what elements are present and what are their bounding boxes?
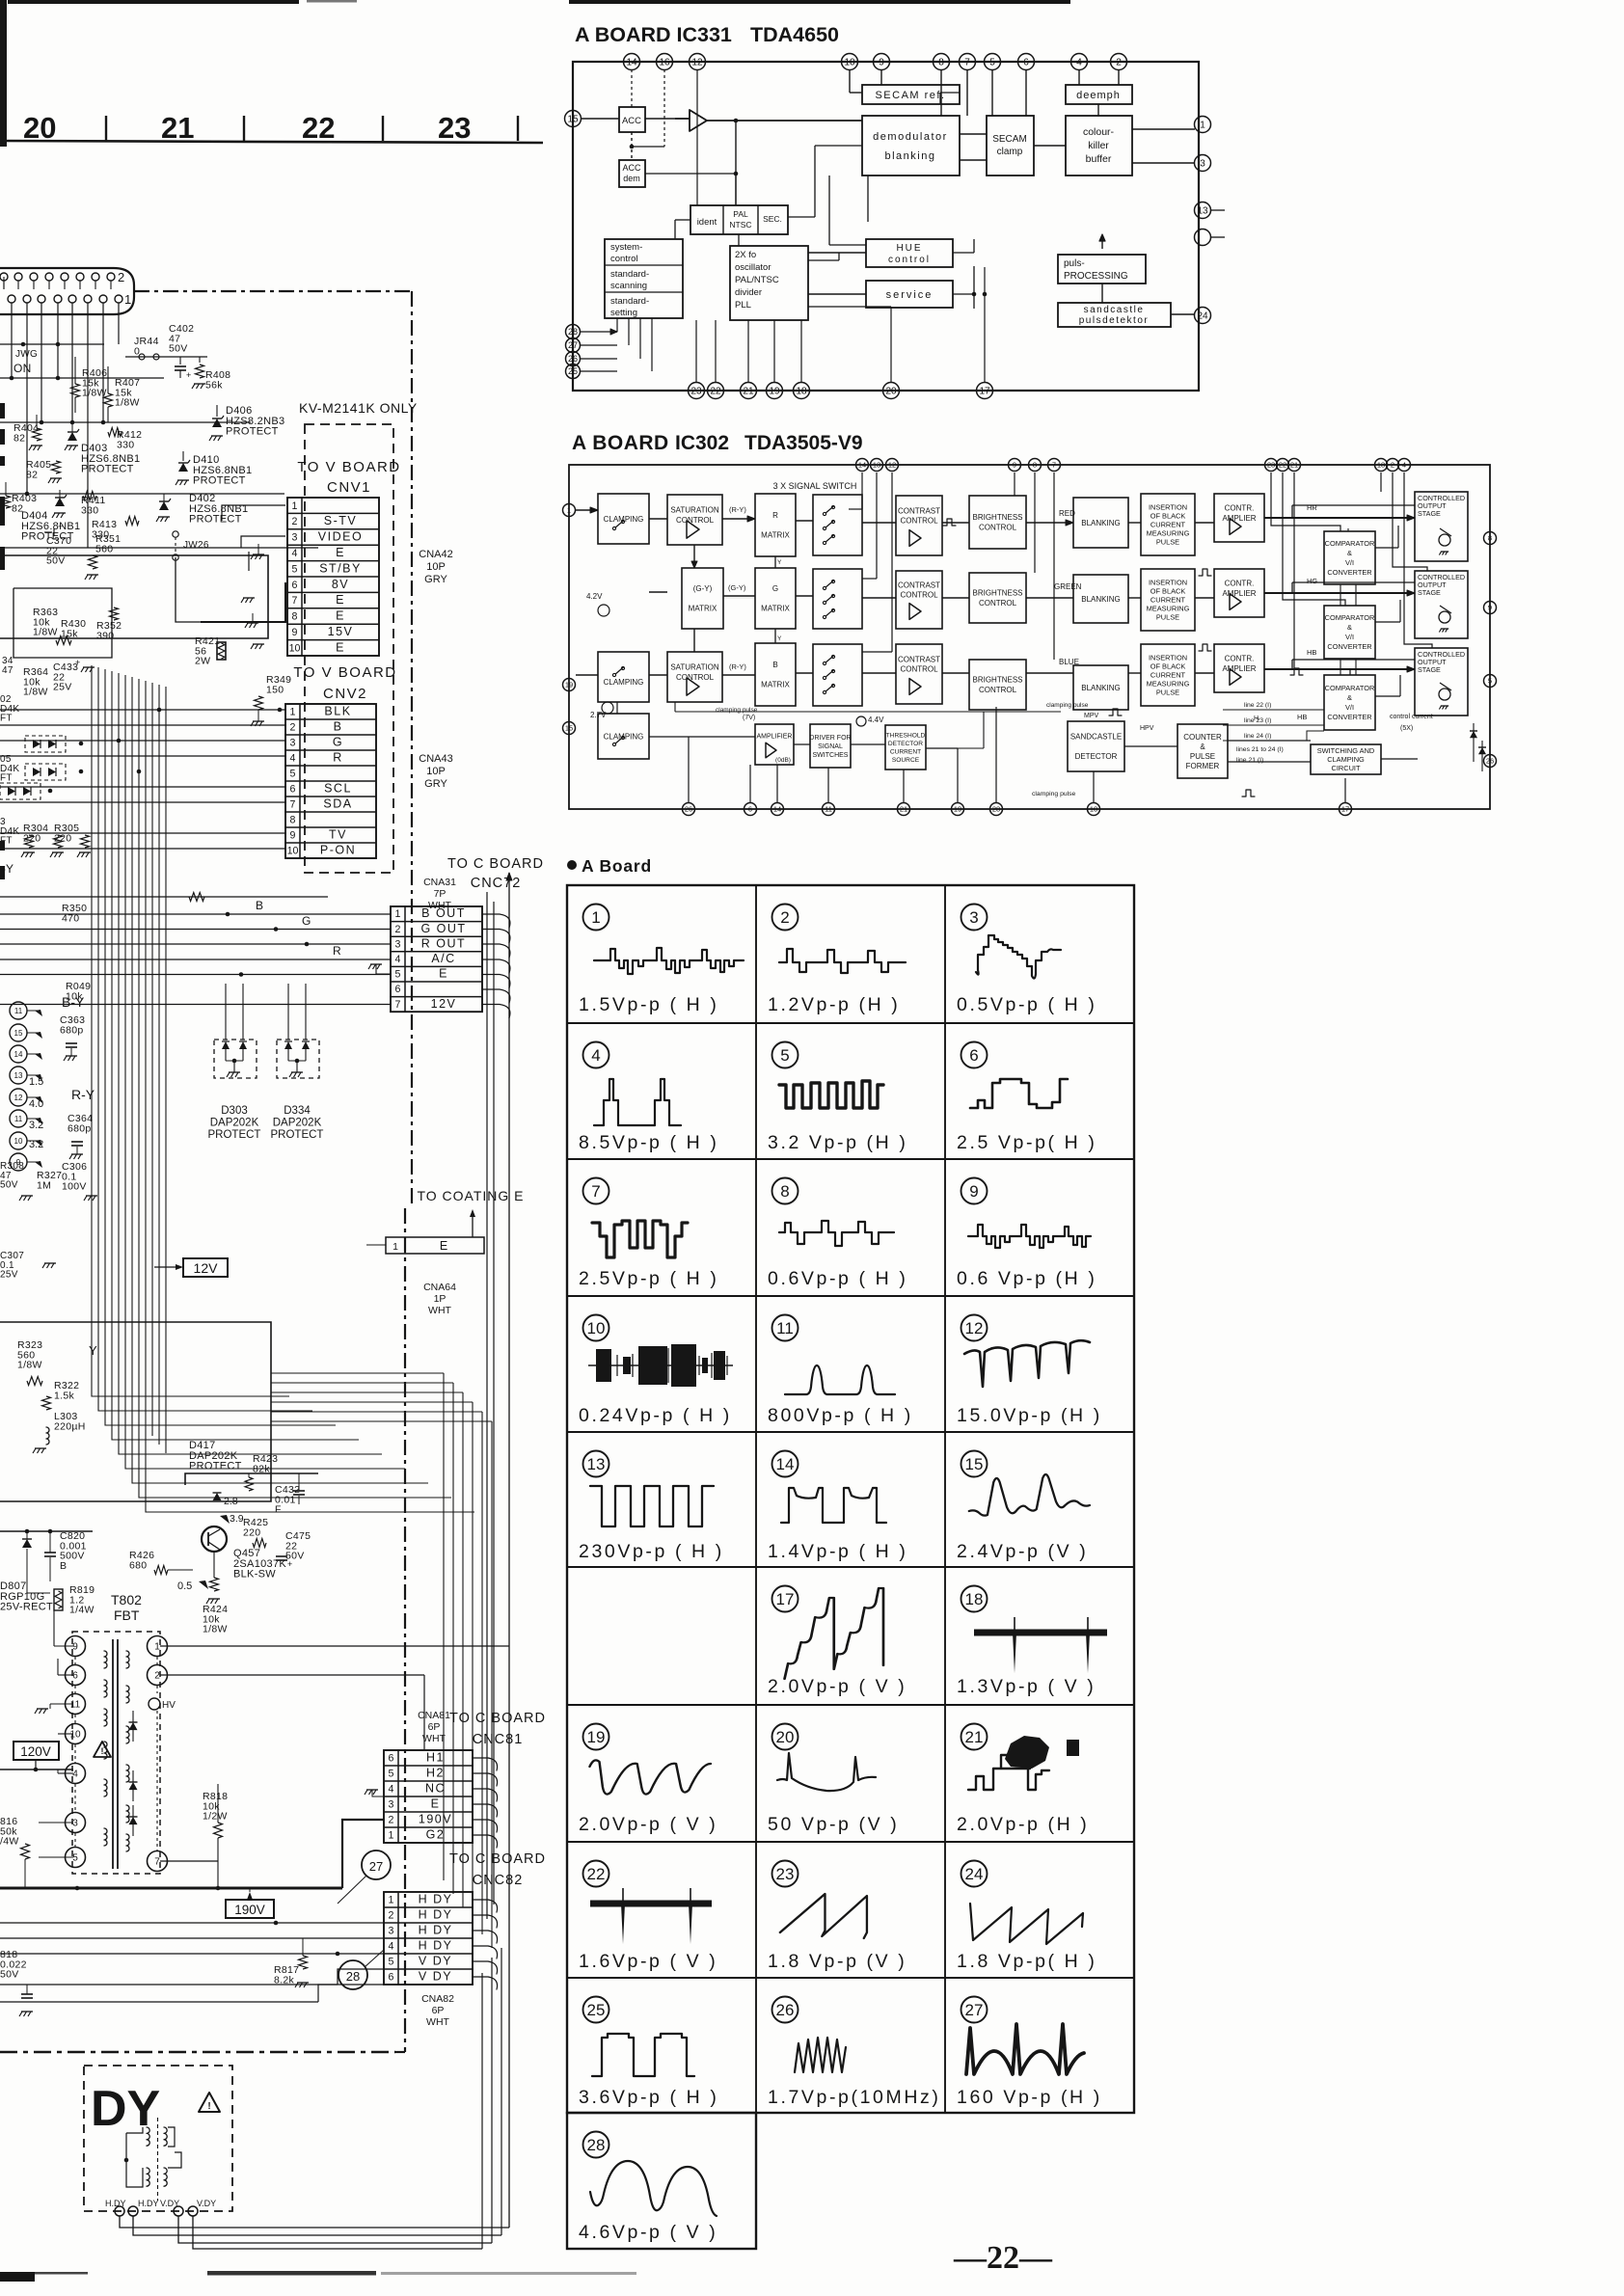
svg-text:blanking: blanking [885,150,936,162]
IC302 block CONTROLLED OUTPUT STAGE 3 [1415,648,1468,716]
svg-text:R: R [333,751,343,765]
svg-text:(G-Y): (G-Y) [693,584,713,593]
svg-text:SOURCE: SOURCE [892,757,920,764]
svg-text:2X fo: 2X fo [735,250,756,260]
svg-text:26: 26 [568,354,578,364]
dashed box KV-M2141K ONLY around CNV1 CNV2 [305,424,393,873]
connector CNA81 table [384,1750,473,1843]
protect diodes D334 DAP202K [277,1040,319,1078]
boxed label 120V [14,1742,59,1760]
svg-text:PROTECT: PROTECT [226,426,279,438]
svg-text:12V: 12V [431,997,457,1011]
waveform cell 20 [772,1724,798,1750]
svg-text:BLANKING: BLANKING [1081,684,1120,692]
svg-text:FT: FT [0,773,13,784]
svg-text:HPV: HPV [1140,725,1154,732]
svg-text:CNA42: CNA42 [419,549,452,560]
waveform cell 27 [961,1997,988,2023]
op IC302 outer box [569,465,1490,809]
svg-text:E: E [440,1239,447,1253]
svg-text:28: 28 [346,1969,360,1984]
block ACC dem [619,160,645,187]
svg-text:19: 19 [954,805,961,814]
IC302 matrix interconnects [693,545,695,568]
svg-text:+: + [58,522,63,531]
svg-text:-Y: -Y [2,862,14,876]
svg-text:1: 1 [389,1895,394,1906]
svg-text:CLAMPING: CLAMPING [604,515,644,524]
svg-text:25V-RECT: 25V-RECT [0,1602,53,1613]
svg-text:D303: D303 [221,1105,248,1117]
svg-text:1/8W: 1/8W [33,627,58,638]
svg-text:GREEN: GREEN [1054,582,1082,591]
svg-text:clamping pulse: clamping pulse [1032,791,1076,797]
svg-text:SATURATION: SATURATION [670,663,719,672]
svg-text:PULSE: PULSE [1190,752,1215,761]
IC302 internal wires row RED [576,509,598,511]
svg-text:21: 21 [1290,461,1298,470]
wires left of FBT [54,1645,73,1647]
svg-text:15: 15 [965,1455,984,1473]
svg-text:5: 5 [292,563,298,575]
svg-text:2.0Vp-p ( V ): 2.0Vp-p ( V ) [579,1814,717,1835]
svg-text:4.6Vp-p ( V ): 4.6Vp-p ( V ) [579,2222,717,2243]
svg-text:50V: 50V [0,1969,19,1981]
svg-text:4: 4 [389,1784,394,1796]
svg-text:&: & [1200,743,1205,751]
svg-text:control current: control current [1390,714,1433,720]
svg-text:8: 8 [290,815,296,826]
svg-text:BLANKING: BLANKING [1081,595,1120,604]
waveform cell 12 [961,1315,988,1341]
horizontal bus wires upper left [0,343,104,345]
svg-text:(R-Y): (R-Y) [729,505,746,514]
svg-text:FT: FT [0,836,13,847]
svg-text:1: 1 [567,506,571,515]
svg-text:CNA82: CNA82 [421,1993,454,2005]
svg-text:(0dB): (0dB) [775,757,791,764]
svg-text:12: 12 [691,58,703,68]
svg-text:FT: FT [0,714,13,724]
svg-text:330: 330 [81,504,98,516]
svg-text:MATRIX: MATRIX [761,605,790,613]
svg-text:11: 11 [14,1115,23,1123]
svg-text:3: 3 [395,938,401,950]
IC302 block BLANKING 1 [1073,498,1128,548]
svg-text:2: 2 [1391,461,1394,470]
IC302 vertical bus wires from top pins [861,473,863,509]
svg-text:19: 19 [587,1728,606,1746]
svg-text:2: 2 [389,1910,394,1922]
IC302 block CONTRAST CONTROL 2 [896,571,942,629]
waveform cell 11 [772,1315,798,1341]
IC302 internal wires row BLUE [576,674,598,676]
block 2X fo oscillator PAL/NTSC divider PLL [730,246,808,320]
svg-text:50V: 50V [46,555,66,567]
svg-text:2.4Vp-p (V ): 2.4Vp-p (V ) [957,1541,1088,1562]
svg-text:CLAMPING: CLAMPING [604,678,644,687]
horizontal bus wires to CNA82 [0,1922,384,1924]
IC302 switch box 3 [813,644,862,706]
svg-text:10: 10 [289,642,301,654]
IC302 block R MATRIX [755,494,796,556]
svg-text:20: 20 [776,1728,795,1746]
flyback transformer T802 dashed box [72,1632,160,1874]
T802 right pins 1 2 HV 7 [148,1636,168,1657]
connector top-left pins row 2 [0,273,8,281]
svg-text:23: 23 [438,111,471,145]
svg-text:1.7Vp-p(10MHz): 1.7Vp-p(10MHz) [768,2087,940,2108]
connector CNV1 table [287,498,379,656]
block service [866,281,953,308]
svg-text:CONTR.: CONTR. [1225,655,1255,663]
svg-text:PULSE: PULSE [1156,689,1179,697]
svg-text:TO V BOARD: TO V BOARD [297,459,400,475]
svg-text:10P: 10P [426,766,446,777]
DY wires to CNA82 [120,2216,509,2228]
staircase wire bundle to lower right [92,1358,289,1396]
svg-text:7P: 7P [434,888,447,900]
svg-text:4: 4 [1076,58,1082,68]
svg-text:demodulator: demodulator [873,131,948,143]
svg-text:CONTRAST: CONTRAST [898,581,940,590]
svg-text:25V: 25V [0,1270,18,1281]
block puls-PROCESSING [1058,255,1146,284]
svg-text:V/I: V/I [1345,633,1354,641]
svg-text:IC302: IC302 [675,432,729,454]
block colour-killer buffer [1066,116,1132,176]
svg-text:line 21 (I): line 21 (I) [1236,757,1263,764]
ground near CNA81 pin3 [372,1790,384,1796]
svg-text:PROTECT: PROTECT [271,1129,324,1141]
svg-text:E: E [336,609,345,623]
svg-text:CIRCUIT: CIRCUIT [1332,764,1361,772]
waveform cell 19 [583,1724,609,1750]
IC302 block INSERTION 2 [1141,569,1195,631]
svg-text:1P: 1P [434,1293,447,1305]
waveform cell 9 [961,1178,988,1204]
svg-text:9: 9 [292,627,298,638]
IC302 right area diodes [1470,731,1477,738]
svg-text:5: 5 [780,1046,789,1065]
svg-text:MATRIX: MATRIX [689,605,717,613]
svg-text:B: B [256,899,263,912]
svg-text:7: 7 [1052,461,1056,470]
block sandcastle pulsdetektor [1058,303,1171,327]
svg-text:H DY: H DY [419,1924,453,1937]
svg-text:14: 14 [773,805,781,814]
svg-text:8V: 8V [332,578,349,591]
svg-text:HB: HB [1307,648,1316,657]
svg-text:12: 12 [14,1094,23,1102]
svg-text:1/8W: 1/8W [17,1360,42,1371]
svg-text:11: 11 [14,1007,23,1015]
waveform cell 28 [583,2132,609,2158]
svg-text:COMPARATOR: COMPARATOR [1325,684,1375,692]
svg-text:V.DY: V.DY [197,2199,216,2208]
svg-text:10: 10 [1090,805,1097,814]
svg-text:15.0Vp-p (H ): 15.0Vp-p (H ) [957,1405,1102,1426]
svg-text:680: 680 [129,1559,147,1571]
svg-text:COMPARATOR: COMPARATOR [1325,613,1375,622]
IC302 block G MATRIX [755,568,796,629]
svg-text:0.6 Vp-p (H ): 0.6 Vp-p (H ) [957,1268,1096,1289]
svg-text:6: 6 [389,1753,394,1765]
svg-text:CONTRAST: CONTRAST [898,507,940,516]
svg-text:28: 28 [587,2136,606,2154]
svg-text:service: service [886,289,934,301]
svg-text:ident: ident [697,217,717,228]
IC302 block BRIGHTNESS CONTROL 1 [969,496,1026,549]
svg-text:1: 1 [124,292,131,307]
deflection yoke DY dashed box [84,2066,232,2211]
svg-text:22: 22 [1279,461,1286,470]
svg-text:+: + [287,1559,292,1569]
svg-text:CNA31: CNA31 [423,877,456,888]
svg-text:220µH: 220µH [54,1420,86,1432]
svg-text:21: 21 [965,1728,984,1746]
svg-text:!: ! [101,1746,104,1756]
svg-text:Y: Y [89,1343,97,1358]
T802 primary coils [104,1651,107,1668]
IC331 left pin 15 [565,111,582,127]
IC331 bottom pins [689,383,705,399]
svg-text:1/8W: 1/8W [203,1624,228,1635]
svg-text:V/I: V/I [1345,703,1354,712]
svg-text:H.DY: H.DY [105,2199,126,2208]
svg-text:120V: 120V [20,1744,51,1759]
svg-text:0.5Vp-p ( H ): 0.5Vp-p ( H ) [957,994,1096,1015]
svg-text:3 X SIGNAL SWITCH: 3 X SIGNAL SWITCH [773,481,857,491]
svg-text:OF BLACK: OF BLACK [1150,587,1186,596]
svg-text:B: B [334,720,343,734]
svg-text:2W: 2W [195,656,210,667]
svg-text:0.24Vp-p ( H ): 0.24Vp-p ( H ) [579,1405,732,1426]
svg-text:standard-: standard- [610,269,649,280]
svg-text:1.4Vp-p ( H ): 1.4Vp-p ( H ) [768,1541,907,1562]
svg-text:DETECTOR: DETECTOR [1075,752,1118,761]
svg-text:3: 3 [389,1926,394,1937]
svg-text:10: 10 [14,1137,23,1146]
svg-text:17: 17 [776,1590,795,1608]
svg-text:CONTR.: CONTR. [1225,580,1255,588]
svg-text:SWITCHES: SWITCHES [813,752,849,759]
svg-text:25: 25 [587,2001,606,2019]
svg-text:470: 470 [62,912,79,924]
waveform cell 23 [772,1861,798,1887]
waveform cell 14 [772,1451,798,1477]
svg-text:2.5Vp-p ( H ): 2.5Vp-p ( H ) [579,1268,718,1289]
svg-text:25V: 25V [53,682,72,693]
svg-text:CONTROL: CONTROL [900,591,938,600]
svg-text:BLANKING: BLANKING [1081,519,1120,527]
svg-text:G OUT: G OUT [420,922,466,935]
svg-text:A BOARD: A BOARD [572,432,669,454]
IC302 block SWITCHING AND CLAMPING CIRCUIT [1311,744,1381,774]
svg-text:4.0: 4.0 [29,1098,43,1110]
svg-text:0.5: 0.5 [177,1580,192,1592]
svg-text:CNC72: CNC72 [471,876,522,891]
svg-text:COUNTER: COUNTER [1183,733,1222,742]
svg-text:8: 8 [780,1182,789,1201]
svg-text:puls-: puls- [1064,258,1085,269]
IC302 block AMPLIFIER [755,724,794,765]
svg-text:3: 3 [290,738,296,749]
waveform cell 26 [772,1997,798,2023]
block ACC [619,107,645,132]
svg-text:13: 13 [873,461,880,470]
svg-text:14: 14 [14,1050,23,1059]
svg-text:AMPLIFIER: AMPLIFIER [757,733,793,740]
svg-text:1.5: 1.5 [29,1076,43,1088]
svg-text:T802: T802 [111,1592,142,1607]
svg-text:1: 1 [154,1642,160,1653]
svg-text:19: 19 [769,387,780,397]
svg-text:18: 18 [796,387,807,397]
svg-text:CONTRAST: CONTRAST [898,656,940,664]
svg-text:10: 10 [287,846,299,857]
svg-text:3: 3 [72,1819,78,1829]
svg-text:28: 28 [992,805,1000,814]
svg-text:HB: HB [1297,713,1307,721]
DY coils [157,2118,159,2201]
svg-text:15: 15 [14,1029,23,1038]
waveform cell 4 [583,1042,609,1068]
IC302 right pins [1484,532,1497,545]
svg-text:PROTECT: PROTECT [189,514,242,526]
svg-text:ON: ON [14,362,32,375]
svg-text:82: 82 [26,469,38,480]
svg-text:PROTECT: PROTECT [208,1129,261,1141]
svg-text:6: 6 [1023,58,1029,68]
svg-text:1: 1 [290,707,296,718]
svg-text:H DY: H DY [419,1939,453,1953]
waveform cell 21 [961,1724,988,1750]
svg-text:&: & [1347,623,1352,632]
svg-text:MPV: MPV [1084,713,1099,719]
svg-text:1.5k: 1.5k [54,1390,74,1401]
svg-text:24: 24 [1197,311,1208,322]
svg-text:E: E [336,640,345,654]
svg-text:V/I: V/I [1345,558,1354,567]
wire bundle horizontals into right verticals [271,1372,444,1374]
T802 core lines [112,1639,114,1869]
svg-text:+: + [75,658,80,667]
svg-text:8: 8 [1488,534,1492,543]
svg-text:deemph: deemph [1076,90,1121,101]
svg-text:47: 47 [2,665,14,676]
IC302 block SANDCASTLE DETECTOR [1068,721,1124,771]
svg-text:CNV1: CNV1 [327,479,371,496]
svg-text:1: 1 [1200,121,1205,131]
svg-text:Y: Y [777,635,782,642]
svg-text:7: 7 [290,799,296,811]
svg-text:8: 8 [292,611,298,623]
T802 left pins 9 6 11 10 4 3 5 [66,1636,86,1657]
svg-text:CONTROL: CONTROL [979,686,1017,694]
T802 rectifier diodes [129,1722,138,1730]
svg-text:8.2k: 8.2k [274,1974,294,1985]
IC302 line wires into comparator 3 [1223,709,1324,711]
svg-text:B: B [60,1560,67,1572]
svg-text:CNA64: CNA64 [423,1282,456,1293]
waveform cell 17 [772,1586,798,1612]
block deemph [1066,85,1132,104]
svg-text:1: 1 [392,1241,398,1253]
svg-text:ACC: ACC [622,163,641,173]
svg-text:22: 22 [587,1865,606,1883]
IC302 block THRESHOLD DETECTOR CURRENT SOURCE [885,725,926,770]
IC302 switch box 1 [813,495,862,555]
svg-text:MEASURING: MEASURING [1147,680,1190,689]
svg-text:ST/BY: ST/BY [319,561,362,575]
svg-text:800Vp-p ( H ): 800Vp-p ( H ) [768,1405,913,1426]
svg-text:27: 27 [369,1859,383,1874]
svg-text:4: 4 [1402,461,1406,470]
svg-text:H DY: H DY [419,1908,453,1922]
grounds near CNV1 [253,554,264,555]
svg-text:CNA81: CNA81 [418,1710,450,1721]
svg-text:divider: divider [735,287,762,298]
waveform cell 8 [772,1178,798,1204]
svg-text:1/8W: 1/8W [23,687,48,698]
thick 190V feed wire [0,1887,342,1890]
svg-text:10: 10 [844,58,855,68]
svg-text:PROTECT: PROTECT [193,475,246,487]
svg-text:CONTROL: CONTROL [900,665,938,674]
svg-text:26: 26 [685,805,692,814]
svg-text:AMPLIER: AMPLIER [1222,664,1256,673]
dashed diode pair boxes left [25,736,66,752]
svg-text:G: G [302,914,311,928]
svg-text:TDA3505-V9: TDA3505-V9 [744,432,863,454]
svg-text:pulsdetektor: pulsdetektor [1079,315,1149,326]
IC302 block B MATRIX [755,643,796,706]
svg-text:8.5Vp-p ( H ): 8.5Vp-p ( H ) [579,1132,718,1153]
connector top-left pins row 1 [8,295,15,303]
svg-text:5: 5 [389,1769,394,1780]
svg-text:5: 5 [72,1853,78,1864]
svg-text:R: R [772,511,778,520]
waveform cell 10 [583,1315,609,1341]
IC302 block CONTROLLED OUTPUT STAGE 2 [1415,571,1468,638]
waveform cell 18 [961,1586,988,1612]
svg-text:1.8 Vp-p( H ): 1.8 Vp-p( H ) [957,1951,1096,1972]
svg-text:colour-: colour- [1083,126,1115,138]
long vertical wires right side [486,892,488,1919]
block demodulator blanking [862,116,960,176]
svg-text:OF BLACK: OF BLACK [1150,512,1186,521]
connector CNV2 table [285,704,376,858]
svg-text:11: 11 [70,1700,81,1711]
svg-text:—22—: —22— [953,2240,1053,2276]
svg-text:13: 13 [14,1071,23,1080]
IC331 right pins 1 3 13 [1195,117,1211,133]
IC302 block COMPARATOR V/I CONVERTER 2 [1324,606,1375,659]
svg-text:9: 9 [1013,461,1016,470]
svg-text:lines 21 to 24 (I): lines 21 to 24 (I) [1236,746,1284,753]
svg-text:STAGE: STAGE [1418,665,1441,674]
waveform 21 scan smudge blob [1005,1736,1049,1769]
svg-text:CNC81: CNC81 [473,1732,524,1747]
wires CNV2 feed lines [0,709,285,711]
svg-text:0.6Vp-p ( H ): 0.6Vp-p ( H ) [768,1268,907,1289]
waveform cell 15 [961,1451,988,1477]
IC302 left pins [563,504,576,517]
svg-text:(5X): (5X) [1400,725,1413,732]
svg-text:scanning: scanning [610,281,647,291]
IC331 right edge stubs [1210,209,1225,211]
